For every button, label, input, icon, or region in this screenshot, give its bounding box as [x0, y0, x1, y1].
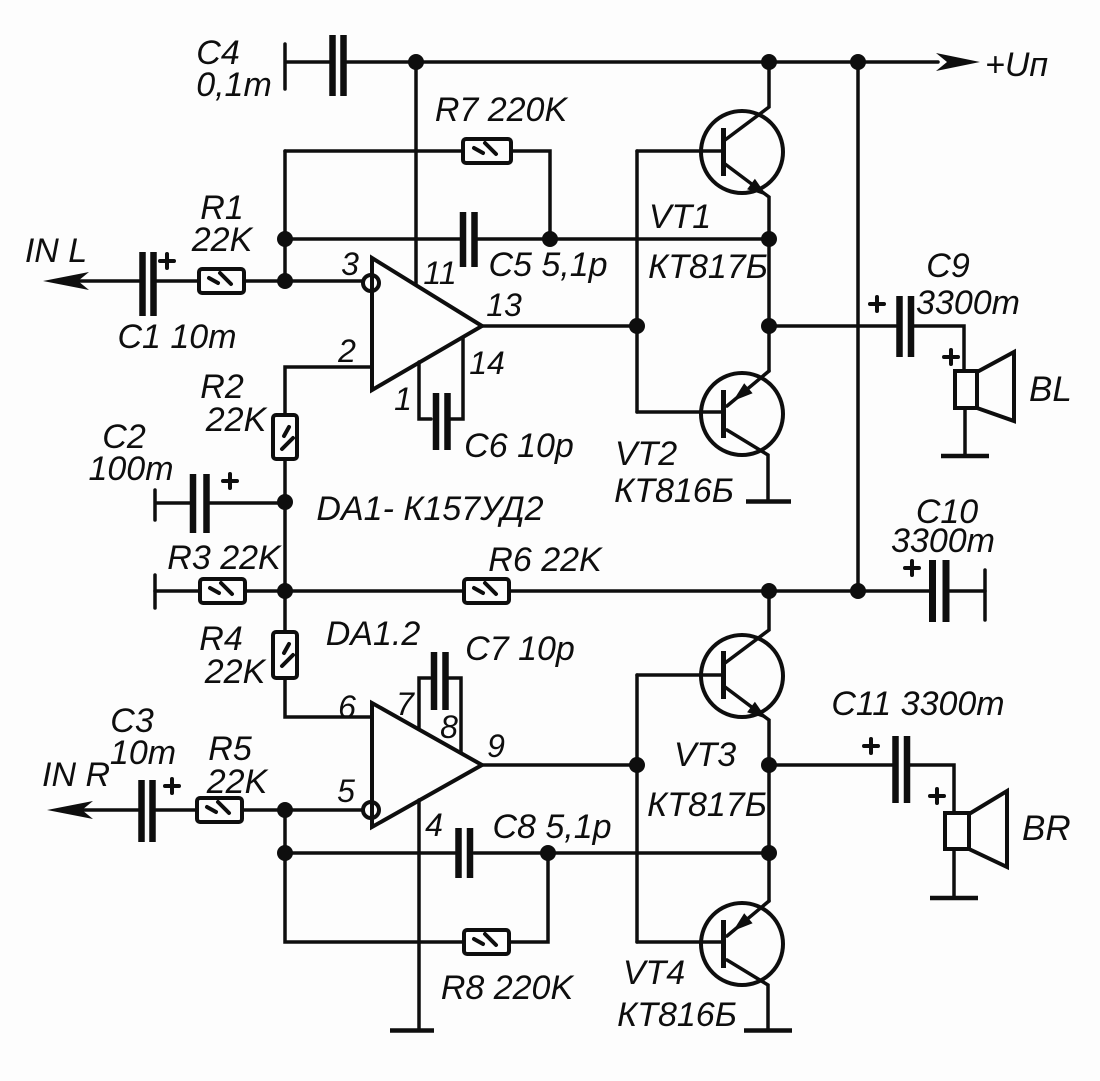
svg-text:C5 5,1p: C5 5,1p: [488, 246, 607, 284]
wire: C9 to speaker BL: [914, 326, 964, 371]
wire: op-amp output pin 13: [482, 324, 637, 328]
node: output / base drive junction ch2: [629, 757, 645, 773]
+Un supply arrow and label: [936, 46, 1048, 84]
ground (BL): [941, 454, 989, 459]
svg-text:C1 10m: C1 10m: [117, 318, 236, 356]
node: mid line / rail branch: [850, 583, 866, 599]
svg-text:BL: BL: [1029, 370, 1072, 409]
svg-text:R3 22K: R3 22K: [167, 539, 282, 577]
svg-text:22K: 22K: [205, 401, 268, 439]
node: feedback tee: [277, 231, 293, 247]
svg-text:C7 10p: C7 10p: [465, 630, 575, 668]
wire: pin 4 to ground: [417, 800, 421, 1029]
speaker BL: [944, 350, 1072, 455]
wire: C5 to VT1 emitter node: [478, 237, 769, 241]
svg-text:14: 14: [469, 345, 505, 381]
transistor VT1 (KT817B, NPN): [637, 62, 783, 286]
capacitor C2: [88, 418, 285, 533]
resistor R8: [441, 930, 575, 1007]
wire: R2 to C2 node: [283, 459, 287, 502]
ground (VT2 collector): [746, 499, 791, 504]
ground (VT4 collector): [744, 1028, 792, 1033]
svg-text:КТ817Б: КТ817Б: [647, 786, 767, 824]
wire: output node vertical ch2: [767, 765, 771, 901]
capacitor C5: [463, 212, 475, 267]
wire: R1 to pin 3: [244, 279, 362, 283]
svg-text:КТ816Б: КТ816Б: [617, 996, 737, 1034]
svg-text:C9: C9: [926, 247, 970, 285]
speaker BR: [930, 789, 1071, 897]
transistor VT3 (KT817B, NPN): [637, 591, 783, 824]
node: mid line / VT3 collector: [761, 583, 777, 599]
wire: pin 8 lead: [449, 678, 461, 753]
wire: C3 to R5: [156, 808, 197, 812]
wire: output ch2 to C11: [769, 763, 892, 767]
svg-text:2: 2: [337, 333, 356, 369]
wire: R5 to pin 5: [242, 808, 362, 812]
node: mid line / R2-R4 junction: [277, 583, 293, 599]
resistor R5: [197, 730, 269, 822]
svg-text:VT3: VT3: [674, 736, 736, 774]
node: output node ch2: [761, 757, 777, 773]
ground (BR): [930, 896, 978, 901]
wire: C10 right lead: [950, 589, 985, 593]
svg-text:DA1- К157УД2: DA1- К157УД2: [316, 490, 543, 528]
svg-text:11: 11: [423, 255, 456, 291]
wire: +Un supply rail: [347, 60, 938, 64]
svg-text:C8 5,1p: C8 5,1p: [492, 808, 611, 846]
wire: node A to C5 left plate: [285, 237, 460, 241]
node: C8 / R8 junction: [540, 845, 556, 861]
wire: base drive vertical ch1: [635, 151, 639, 412]
transistor VT2 (KT816B, PNP): [614, 371, 783, 510]
svg-text:8: 8: [440, 709, 458, 745]
node: input node (R1 / feedback): [277, 273, 293, 289]
capacitor C3: [110, 702, 179, 842]
svg-text:VT2: VT2: [615, 435, 677, 473]
wire: mid line R3 to R6: [245, 589, 464, 593]
resistor R2 (vertical): [200, 368, 297, 459]
capacitor C1: [117, 252, 236, 356]
node: input node ch2: [277, 802, 293, 818]
wire: output node vertical ch1: [767, 239, 771, 371]
svg-text:1: 1: [394, 381, 412, 417]
wire: output ch1 to C9: [769, 324, 896, 328]
capacitor C10: [891, 493, 995, 622]
input IN R arrow: [42, 756, 138, 819]
svg-text:4: 4: [425, 807, 443, 843]
svg-text:R6 22K: R6 22K: [488, 541, 603, 579]
node: C2 junction: [277, 494, 293, 510]
wire: pin 11 supply line: [414, 62, 418, 284]
svg-text:5: 5: [337, 773, 355, 809]
wire: feedback node vertical (R1/pin3 to R7/C5): [283, 151, 287, 281]
wire: mid line left segment: [155, 589, 200, 593]
wire: pin 14 lead: [450, 338, 463, 419]
svg-text:КТ816Б: КТ816Б: [614, 472, 734, 510]
transistor VT4 (KT816B, PNP): [617, 901, 783, 1034]
capacitor C9: [870, 247, 1020, 357]
wire: op-amp output pin 9: [482, 763, 637, 767]
wire: mid line to R4: [283, 591, 287, 632]
svg-text:3300m: 3300m: [891, 522, 995, 560]
svg-text:3300m: 3300m: [916, 284, 1020, 322]
node: C5 / R7 junction: [542, 231, 558, 247]
svg-text:3: 3: [341, 246, 359, 282]
wire: R8 loop left: [285, 853, 464, 942]
node: C8 tee: [277, 845, 293, 861]
wire: C11 to speaker BR: [910, 765, 954, 813]
capacitor C6: [436, 393, 574, 465]
wire: base drive vertical ch2: [635, 675, 639, 942]
svg-text:C6 10p: C6 10p: [464, 427, 574, 465]
svg-text:VT4: VT4: [623, 954, 685, 992]
svg-text:DA1.2: DA1.2: [326, 615, 421, 653]
capacitor C8: [459, 828, 471, 878]
svg-text:22K: 22K: [204, 653, 267, 691]
wire: R8 right segment up to C8 node: [509, 853, 548, 942]
wire: pin 2 to R2: [285, 367, 372, 415]
node: rail / pin 11 junction: [408, 54, 424, 70]
resistor R3: [167, 539, 282, 603]
node: output node ch1: [761, 318, 777, 334]
wire: R7 right segment down to C5 line: [511, 151, 550, 239]
wire: R4 to pin 6: [285, 678, 372, 717]
capacitor C11: [831, 685, 1004, 803]
ground (pin 4): [390, 1028, 434, 1033]
node: output / base drive junction: [629, 318, 645, 334]
terminal tick: C10 right: [983, 570, 987, 620]
svg-text:9: 9: [487, 728, 505, 764]
wire: C8 left segment: [285, 851, 455, 855]
terminal tick: mid line left: [153, 575, 157, 608]
wire: pin 1 lead: [419, 362, 431, 419]
svg-text:22K: 22K: [191, 221, 254, 259]
svg-text:IN L: IN L: [25, 232, 87, 270]
capacitor C4: [196, 34, 343, 104]
resistor R4 (vertical): [199, 620, 297, 691]
wire: C2 node to mid line: [283, 502, 287, 591]
wire: rail branch down to mid line: [856, 62, 860, 591]
wire: C8 to VT4 collector node: [474, 851, 769, 855]
pin 5 input circle: [363, 802, 379, 818]
svg-text:22K: 22K: [206, 763, 269, 801]
svg-text:R7 220K: R7 220K: [435, 91, 569, 129]
op-amp DA1.2: [372, 703, 482, 827]
wire: pin 7 lead: [419, 678, 430, 729]
svg-text:+Uп: +Uп: [985, 46, 1048, 84]
wire: mid line R6 to C10: [509, 589, 929, 593]
svg-text:7: 7: [396, 686, 415, 722]
capacitor C7: [434, 630, 575, 710]
svg-text:10m: 10m: [110, 734, 176, 772]
svg-text:0,1m: 0,1m: [196, 66, 272, 104]
svg-text:6: 6: [338, 689, 356, 725]
svg-text:IN R: IN R: [42, 756, 110, 794]
wire: R7 top left segment: [285, 149, 463, 153]
node: VT1 emitter / feedback tap: [761, 231, 777, 247]
node: C8 wire / VT4 emitter junction: [761, 845, 777, 861]
svg-text:R8 220K: R8 220K: [441, 969, 575, 1007]
node: rail / VT1 collector: [761, 54, 777, 70]
resistor R7: [463, 139, 511, 163]
svg-text:BR: BR: [1022, 809, 1071, 848]
svg-text:C11 3300m: C11 3300m: [831, 685, 1004, 723]
svg-text:КТ817Б: КТ817Б: [648, 248, 768, 286]
op-amp DA1 (K157UD2): [372, 258, 482, 390]
svg-text:100m: 100m: [88, 450, 173, 488]
wire: input node ch2 down to C8 line: [283, 810, 287, 853]
svg-text:13: 13: [486, 287, 522, 323]
node: rail / C10 branch: [850, 54, 866, 70]
svg-text:VT1: VT1: [649, 198, 711, 236]
resistor R6: [464, 541, 603, 603]
pin 3 input circle: [363, 275, 379, 291]
resistor R1: [191, 189, 254, 293]
wire: C1 to R1: [157, 279, 199, 283]
input IN L arrow: [25, 232, 139, 290]
